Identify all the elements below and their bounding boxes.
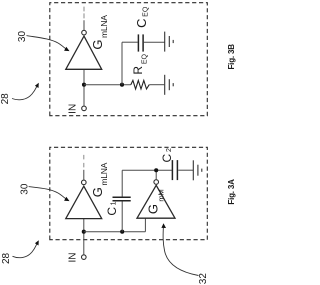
wire to G_mM input (Fig 3A) xyxy=(144,218,146,232)
leader arrow 28 (Fig 3A) xyxy=(13,242,38,257)
bias stub wire (Fig 3B) xyxy=(83,20,85,30)
svg-text:30: 30 xyxy=(19,183,30,195)
leader arrow 30 (Fig 3A) xyxy=(29,187,67,200)
svg-text:2: 2 xyxy=(166,148,173,152)
capacitor C_EQ bottom lead wire (Fig 3B) xyxy=(144,41,165,43)
svg-text:R: R xyxy=(131,66,145,75)
resistor R_EQ zigzag (Fig 3B) xyxy=(131,80,149,89)
node IN terminal circle (Fig 3B) xyxy=(82,106,87,111)
node A junction dot input (Fig 3A) xyxy=(82,230,86,234)
capacitor C2 plates (Fig 3A) xyxy=(171,160,173,180)
capacitor C1 left lead wire (Fig 3A) xyxy=(121,201,123,231)
amplifier block dashed box 28 (Fig 3A) xyxy=(50,147,208,239)
svg-text:32: 32 xyxy=(198,273,209,285)
bias stub wire (Fig 3A) xyxy=(83,170,85,180)
G_mM output terminal circle (Fig 3A) xyxy=(154,180,159,185)
wire IN to amp input (Fig 3B) xyxy=(83,69,85,106)
svg-text:mLNA: mLNA xyxy=(99,162,109,185)
svg-text:G: G xyxy=(145,204,160,214)
leader arrow 28 (Fig 3B) xyxy=(12,85,38,100)
wire top rail down to C2 (Fig 3A) xyxy=(122,169,172,171)
svg-text:C: C xyxy=(134,18,149,27)
op-amp G_mLNA triangle 30 (Fig 3A) xyxy=(66,186,102,218)
wire input node down-branch (Fig 3B) xyxy=(84,84,131,86)
svg-text:G: G xyxy=(90,39,105,49)
ground symbol under C_EQ (Fig 3B) xyxy=(165,32,174,52)
svg-text:C: C xyxy=(105,207,119,216)
amp output terminal circle (Fig 3B) xyxy=(82,30,87,35)
node C junction dot top rail (Fig 3A) xyxy=(154,168,158,172)
svg-text:EQ: EQ xyxy=(142,53,149,64)
node B junction dot C1 left (Fig 3A) xyxy=(120,230,124,234)
node IN terminal circle (Fig 3A) xyxy=(82,255,87,260)
svg-text:C: C xyxy=(160,154,174,163)
leader arrow 32 (Fig 3A) xyxy=(163,227,198,276)
wire IN to amp input (Fig 3A) xyxy=(83,219,85,255)
resistor bottom lead wire (Fig 3B) xyxy=(149,84,164,86)
svg-text:30: 30 xyxy=(17,31,28,43)
wire C_EQ branch horizontal (Fig 3B) xyxy=(121,42,123,85)
capacitor C1 plates (Fig 3A) xyxy=(113,200,131,202)
node E junction dot R/C branch (Fig 3B) xyxy=(120,83,124,87)
svg-text:mLNA: mLNA xyxy=(99,15,109,38)
svg-text:1: 1 xyxy=(111,201,118,205)
dashed bias line to box edge (Fig 3A) xyxy=(83,155,85,168)
op-amp G_mM triangle 32 (Fig 3A) xyxy=(137,185,175,218)
op-amp G_mLNA triangle 30 (Fig 3B) xyxy=(66,36,102,69)
equivalent block dashed box 28 (Fig 3B) xyxy=(50,3,208,116)
svg-text:EQ: EQ xyxy=(143,6,150,17)
ground symbol (Fig 3A) xyxy=(193,160,202,180)
ground symbol under R_EQ (Fig 3B) xyxy=(165,75,174,95)
capacitor C1 right lead wire (Fig 3A) xyxy=(121,170,123,196)
svg-text:Fig. 3A: Fig. 3A xyxy=(227,179,236,205)
svg-text:G: G xyxy=(90,187,105,197)
svg-text:IN: IN xyxy=(68,253,79,263)
wire G_mM output to top rail (Fig 3A) xyxy=(155,170,157,179)
svg-text:28: 28 xyxy=(1,252,12,264)
svg-text:IN: IN xyxy=(68,104,79,114)
wire C_EQ branch down (Fig 3B) xyxy=(122,41,138,43)
svg-text:28: 28 xyxy=(0,93,11,105)
amp output terminal circle (Fig 3A) xyxy=(82,180,87,185)
dashed bias line to box edge (Fig 3B) xyxy=(83,7,85,19)
svg-text:mM: mM xyxy=(157,189,166,201)
node D junction dot input (Fig 3B) xyxy=(82,83,86,87)
capacitor C_EQ plates (Fig 3B) xyxy=(137,34,139,51)
capacitor C2 bottom lead wire (Fig 3A) xyxy=(178,169,193,171)
wire input node down-branch (Fig 3A) xyxy=(84,231,146,233)
svg-text:Fig. 3B: Fig. 3B xyxy=(227,44,236,70)
leader arrow 30 (Fig 3B) xyxy=(27,36,67,50)
